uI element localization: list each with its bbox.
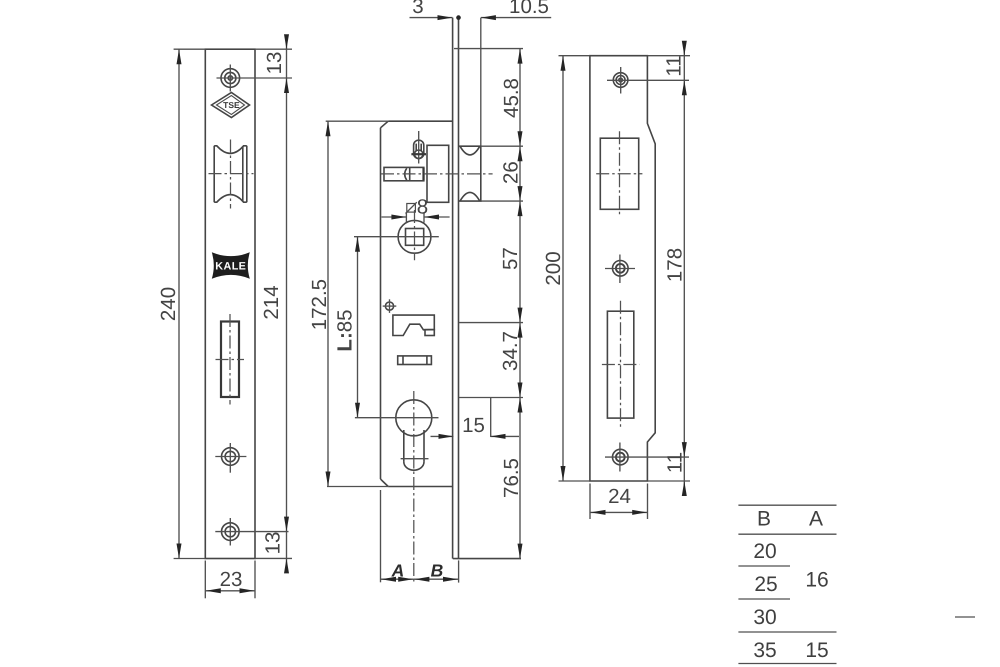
svg-text:30: 30 bbox=[753, 606, 776, 629]
dim 23 bbox=[205, 561, 255, 599]
dim 26 bbox=[500, 146, 523, 201]
latch bolt body inside case bbox=[427, 145, 449, 202]
table cell 15 bbox=[805, 639, 828, 662]
latch window bbox=[596, 131, 642, 214]
dim 3 bbox=[410, 0, 461, 20]
roller bbox=[209, 140, 254, 209]
stray tick mark bbox=[955, 616, 975, 618]
svg-text:B: B bbox=[757, 508, 771, 531]
svg-text:34.7: 34.7 bbox=[499, 331, 522, 371]
svg-text:13: 13 bbox=[262, 532, 285, 555]
latch bolt head bbox=[459, 146, 481, 201]
table line under 30 bbox=[738, 631, 836, 633]
dim 172.5 bbox=[308, 121, 388, 486]
table cell 35 bbox=[753, 639, 776, 662]
spring plate bbox=[398, 356, 432, 365]
svg-text:24: 24 bbox=[608, 485, 631, 508]
svg-text:57: 57 bbox=[499, 247, 522, 270]
svg-text:15: 15 bbox=[805, 639, 828, 662]
svg-text:3: 3 bbox=[412, 0, 423, 18]
svg-text:A: A bbox=[391, 561, 405, 581]
dim 200 bbox=[542, 56, 590, 481]
table header B bbox=[757, 508, 771, 531]
svg-text:L:85: L:85 bbox=[334, 309, 357, 351]
chain dim extension lines bbox=[454, 49, 523, 398]
screw hole H1 top bbox=[217, 65, 246, 92]
svg-text:214: 214 bbox=[260, 285, 283, 319]
dim 10.5 bbox=[481, 0, 551, 20]
left faceplate outline bbox=[205, 49, 255, 558]
svg-text:240: 240 bbox=[157, 287, 180, 321]
table line top bbox=[738, 504, 836, 506]
cam lever detail bbox=[393, 315, 434, 335]
svg-text:20: 20 bbox=[753, 540, 776, 563]
rectangular slot bbox=[216, 314, 245, 405]
table cell 20 bbox=[753, 540, 776, 563]
dim 11 top bbox=[647, 41, 690, 496]
svg-text:A: A bbox=[809, 508, 823, 531]
svg-text:11: 11 bbox=[664, 452, 687, 473]
dim 34.7 bbox=[499, 323, 523, 398]
strike screw hole bottom bbox=[605, 443, 689, 472]
table line under header bbox=[738, 533, 836, 535]
lock case outline bbox=[381, 121, 453, 486]
follower centerline bbox=[354, 236, 439, 238]
dim 240 bbox=[157, 49, 205, 558]
strike plate outline bbox=[590, 56, 655, 481]
svg-text:15: 15 bbox=[462, 414, 485, 437]
table line bottom bbox=[738, 663, 836, 665]
table cell 25 bbox=[754, 573, 777, 596]
screw hole H3 bottom bbox=[215, 518, 288, 546]
svg-text:172.5: 172.5 bbox=[308, 279, 331, 330]
svg-text:TSE: TSE bbox=[223, 100, 240, 110]
TSE diamond logo bbox=[212, 93, 250, 118]
dim 45.8 bbox=[500, 49, 523, 559]
strike screw hole top bbox=[607, 67, 689, 94]
svg-text:45.8: 45.8 bbox=[500, 78, 523, 118]
deadbolt slot bbox=[602, 301, 640, 429]
KALE logo bbox=[212, 252, 250, 278]
svg-text:13: 13 bbox=[263, 52, 286, 75]
position mark cross circle bbox=[383, 299, 397, 313]
svg-text:35: 35 bbox=[753, 639, 776, 662]
svg-text:11: 11 bbox=[663, 55, 686, 76]
dim 214 bbox=[260, 285, 289, 531]
dim square 8 bbox=[382, 196, 450, 223]
table cell 16 bbox=[805, 568, 828, 591]
dim A bbox=[381, 490, 414, 582]
dim 15 bbox=[431, 398, 520, 439]
dim 178 bbox=[664, 248, 687, 457]
strike screw hole middle bbox=[605, 255, 635, 284]
dim 57 bbox=[499, 201, 523, 323]
screw hole H2 bbox=[215, 443, 246, 473]
svg-text:10.5: 10.5 bbox=[509, 0, 549, 18]
euro cylinder hole bbox=[355, 391, 439, 582]
follower spring pin bbox=[411, 131, 426, 164]
table header A bbox=[809, 508, 823, 531]
table line under 20 bbox=[738, 565, 790, 567]
svg-text:8: 8 bbox=[417, 196, 428, 219]
dim 24 bbox=[590, 484, 648, 520]
dim 11 bottom bbox=[647, 452, 690, 496]
forend faceplate edge (3mm strip) bbox=[453, 18, 459, 559]
dim 13 bottom bbox=[255, 532, 292, 574]
svg-text:26: 26 bbox=[500, 161, 523, 184]
svg-text:76.5: 76.5 bbox=[500, 458, 523, 498]
svg-text:200: 200 bbox=[542, 251, 565, 285]
svg-text:16: 16 bbox=[805, 568, 828, 591]
dim B bbox=[414, 560, 459, 582]
spindle follower hub bbox=[398, 210, 431, 260]
latch spring rod bbox=[381, 167, 493, 180]
bottom extension line bbox=[453, 558, 521, 560]
dim L:85 bbox=[334, 237, 361, 418]
dim 76.5 bbox=[500, 398, 523, 559]
dim 13 top bbox=[245, 34, 292, 572]
table cell 30 bbox=[753, 606, 776, 629]
svg-text:B: B bbox=[431, 561, 444, 581]
svg-text:178: 178 bbox=[664, 248, 687, 282]
svg-text:25: 25 bbox=[754, 573, 777, 596]
latch projection line (10.5) bbox=[480, 18, 482, 147]
table line under 25 bbox=[738, 598, 790, 600]
svg-text:23: 23 bbox=[220, 568, 243, 591]
svg-text:KALE: KALE bbox=[215, 261, 246, 273]
